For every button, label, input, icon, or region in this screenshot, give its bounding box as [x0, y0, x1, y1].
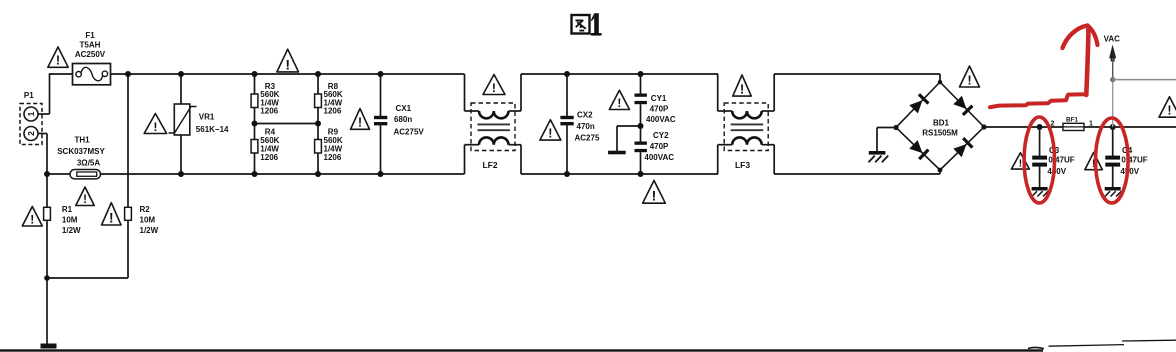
svg-text:BD1: BD1 — [933, 118, 950, 127]
capacitor CX2 — [560, 74, 600, 174]
common-mode choke LF3 — [718, 74, 775, 174]
node junction fuse/R2 on top rail — [125, 71, 131, 77]
svg-text:TH1: TH1 — [74, 136, 90, 145]
warning triangle above LF2 — [483, 75, 505, 95]
resistor R1 — [44, 174, 81, 344]
svg-text:AC250V: AC250V — [75, 50, 106, 59]
svg-text:470P: 470P — [650, 142, 669, 151]
svg-text:AC275: AC275 — [575, 134, 600, 143]
node bridge right vertex — [981, 124, 986, 129]
diode D-left-bottom of BD1 — [909, 140, 928, 159]
ferrite bead BF1 — [1063, 117, 1084, 131]
diode D-bottom-right of BD1 — [953, 138, 972, 157]
warning triangle near C3 — [1011, 153, 1029, 170]
svg-text:0.47UF: 0.47UF — [1121, 155, 1147, 164]
capacitor CY2 — [635, 131, 675, 174]
svg-text:450V: 450V — [1047, 167, 1066, 176]
svg-text:470P: 470P — [650, 105, 669, 114]
resistor R8 — [315, 74, 343, 124]
node bridge bottom vertex — [938, 168, 943, 173]
svg-text:!: ! — [652, 188, 657, 204]
node R8 top — [315, 71, 321, 77]
node VR1 bottom — [178, 171, 184, 177]
wire P1 pin1 to fuse — [38, 73, 50, 114]
warning triangle above LF3 — [733, 75, 752, 97]
svg-text:CX1: CX1 — [396, 104, 412, 113]
svg-text:!: ! — [358, 115, 362, 130]
wire CY midpoint to chassis — [617, 126, 641, 151]
capacitor C4 — [1105, 127, 1147, 187]
node C4 tap / VAC — [1110, 124, 1116, 130]
title 图1 — [572, 15, 590, 34]
node junction R1/R2 — [44, 275, 50, 281]
wire gray branch to right edge — [1113, 79, 1176, 81]
svg-text:10M: 10M — [140, 215, 156, 224]
warning triangle above bridge — [960, 66, 980, 87]
svg-text:1206: 1206 — [324, 107, 342, 116]
node CY mid — [638, 123, 644, 129]
resistor R2 — [125, 74, 159, 278]
warning triangle below TH1 — [76, 187, 95, 206]
node CX2 bottom — [564, 171, 570, 177]
warning triangle near R1 — [22, 207, 42, 227]
warning triangle near F1 — [48, 47, 68, 68]
svg-text:AC275V: AC275V — [394, 128, 425, 137]
node gray tap on VAC line — [1110, 77, 1115, 82]
node VR1 top — [178, 71, 184, 77]
svg-text:P1: P1 — [24, 91, 34, 100]
svg-text:!: ! — [109, 210, 114, 225]
node R4 bottom — [252, 171, 258, 177]
node CY1 top — [638, 71, 644, 77]
node R8/R9 mid — [315, 121, 321, 127]
svg-text:!: ! — [153, 120, 157, 134]
bottom page border line — [0, 340, 1176, 351]
svg-text:!: ! — [740, 82, 744, 97]
wire R2 bottom to R1 — [47, 277, 128, 279]
chassis ground of CY midpoint — [608, 151, 626, 155]
svg-text:VAC: VAC — [1104, 34, 1121, 43]
capacitor CY1 — [635, 74, 676, 142]
svg-text:!: ! — [1019, 159, 1022, 170]
svg-text:VR1: VR1 — [199, 112, 215, 121]
svg-text:!: ! — [285, 56, 290, 72]
svg-text:680n: 680n — [394, 115, 412, 124]
svg-text:CX2: CX2 — [577, 111, 593, 120]
wire DC output rail — [984, 126, 1176, 128]
svg-text:!: ! — [1167, 104, 1171, 118]
wire bottom rail (N) — [47, 173, 465, 175]
svg-text:400VAC: 400VAC — [646, 115, 676, 124]
warning triangle near CY1 — [609, 90, 629, 110]
svg-text:450V: 450V — [1120, 167, 1139, 176]
svg-text:2: 2 — [26, 131, 36, 136]
svg-text:2: 2 — [1051, 121, 1055, 128]
svg-text:RS1505M: RS1505M — [922, 128, 958, 137]
warning triangle below CY2 — [643, 181, 666, 204]
svg-text:!: ! — [83, 194, 87, 206]
warning triangle above R3/R8 — [277, 49, 299, 72]
svg-text:0.47UF: 0.47UF — [1048, 155, 1074, 164]
svg-text:LF3: LF3 — [735, 160, 750, 170]
svg-text:400VAC: 400VAC — [644, 153, 674, 162]
svg-text:1206: 1206 — [324, 153, 342, 162]
svg-text:!: ! — [56, 54, 60, 68]
node CX1 top — [378, 71, 384, 77]
svg-text:!: ! — [30, 212, 34, 226]
capacitor CX1 — [374, 74, 424, 174]
svg-text:561K−14: 561K−14 — [196, 125, 229, 134]
svg-text:CY2: CY2 — [653, 131, 669, 140]
svg-text:!: ! — [617, 96, 621, 110]
node CX2 top — [564, 71, 570, 77]
net +VAC arrow — [1104, 34, 1121, 127]
node bridge left vertex — [893, 125, 898, 130]
warning triangle near VR1 — [144, 114, 167, 134]
wire bottom rail LF3 to bridge — [774, 173, 940, 175]
node R3/R4 mid — [252, 121, 258, 127]
svg-text:R2: R2 — [140, 205, 151, 214]
wire top rail fuse to LF2 — [111, 73, 465, 75]
red circle around C3 — [1024, 117, 1054, 203]
red hand-drawn arrow to VAC — [1063, 26, 1098, 96]
resistor R4 — [251, 124, 280, 175]
svg-text:470n: 470n — [577, 122, 595, 131]
wire bridge left vertex to earth — [877, 128, 896, 152]
node junction P1/TH1/R1 — [44, 171, 50, 177]
wire mid row R3-R8 — [255, 123, 319, 125]
svg-text:!: ! — [967, 72, 971, 87]
node CX1 bottom — [378, 171, 384, 177]
svg-text:1/2W: 1/2W — [62, 226, 81, 235]
svg-text:1: 1 — [1089, 120, 1093, 127]
diode D-left-top (AC- to +?) of BD1 — [909, 94, 928, 113]
common-mode choke LF2 — [465, 74, 522, 174]
svg-text:3Ω/5A: 3Ω/5A — [77, 158, 101, 167]
svg-text:10M: 10M — [62, 215, 78, 224]
svg-text:!: ! — [492, 81, 496, 95]
svg-text:BF1: BF1 — [1066, 117, 1078, 124]
wire bottom rail LF2 to LF3 — [521, 173, 718, 175]
diode D-top-right of BD1 — [953, 96, 972, 115]
svg-text:1/2W: 1/2W — [140, 226, 159, 235]
wire top rail LF3 to bridge — [774, 73, 940, 75]
warning triangle near C4 — [1085, 153, 1103, 171]
svg-text:F1: F1 — [85, 31, 95, 40]
varistor VR1 — [169, 74, 230, 174]
warning triangle right edge — [1159, 97, 1176, 118]
earth ground below C4 — [1105, 187, 1122, 197]
connector P1 — [20, 91, 42, 144]
chassis ground below R1 — [41, 344, 57, 349]
bridge rectifier BD1 — [896, 74, 984, 174]
svg-text:1206: 1206 — [260, 153, 278, 162]
earth ground below C3 — [1032, 187, 1049, 197]
svg-text:1: 1 — [26, 111, 36, 116]
node C3 tap — [1037, 124, 1043, 130]
wire P1 pin2 to bottom rail — [38, 134, 47, 176]
wire top rail LF2 to LF3 — [521, 73, 718, 75]
warning triangle near R2 — [102, 203, 122, 226]
svg-text:1206: 1206 — [260, 107, 278, 116]
wire top rail (L) fuse lead — [50, 73, 73, 75]
svg-text:!: ! — [548, 127, 552, 141]
red hand-drawn underline/squiggle — [990, 94, 1086, 107]
node R3 top — [252, 71, 258, 77]
red circle around C4 — [1096, 118, 1129, 203]
node CY2 bottom — [638, 171, 644, 177]
svg-text:T5AH: T5AH — [80, 41, 101, 50]
resistor R9 — [315, 124, 343, 175]
capacitor C3 — [1032, 127, 1075, 187]
resistor R3 — [251, 74, 280, 124]
svg-text:SCK037MSY: SCK037MSY — [57, 147, 105, 156]
earth ground at bridge — [869, 151, 889, 162]
thermistor TH1 — [57, 136, 105, 179]
svg-text:R1: R1 — [62, 205, 73, 214]
svg-text:LF2: LF2 — [482, 160, 497, 170]
node R9 bottom — [315, 171, 321, 177]
warning triangle near CX2 — [540, 120, 561, 141]
node bridge top vertex — [938, 80, 942, 84]
fuse F1 — [73, 31, 111, 85]
svg-text:CY1: CY1 — [651, 94, 667, 103]
warning triangle near CX1 — [351, 109, 370, 130]
